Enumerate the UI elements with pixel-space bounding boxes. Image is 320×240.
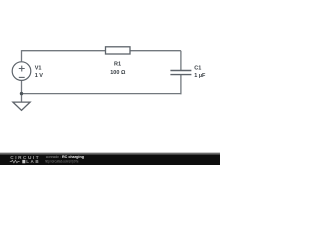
svg-text:100 Ω: 100 Ω <box>110 70 126 76</box>
svg-text:LAB: LAB <box>26 159 39 164</box>
svg-text:V1: V1 <box>35 65 42 71</box>
svg-text:C1: C1 <box>194 65 201 71</box>
svg-text:http://circuitlab.com/c/7p97e: http://circuitlab.com/c/7p97e <box>45 160 79 164</box>
svg-text:1 V: 1 V <box>35 73 44 79</box>
svg-text:R1: R1 <box>114 61 121 67</box>
svg-text:conradv : RC charging: conradv : RC charging <box>46 155 85 159</box>
svg-text:1 µF: 1 µF <box>194 73 206 79</box>
